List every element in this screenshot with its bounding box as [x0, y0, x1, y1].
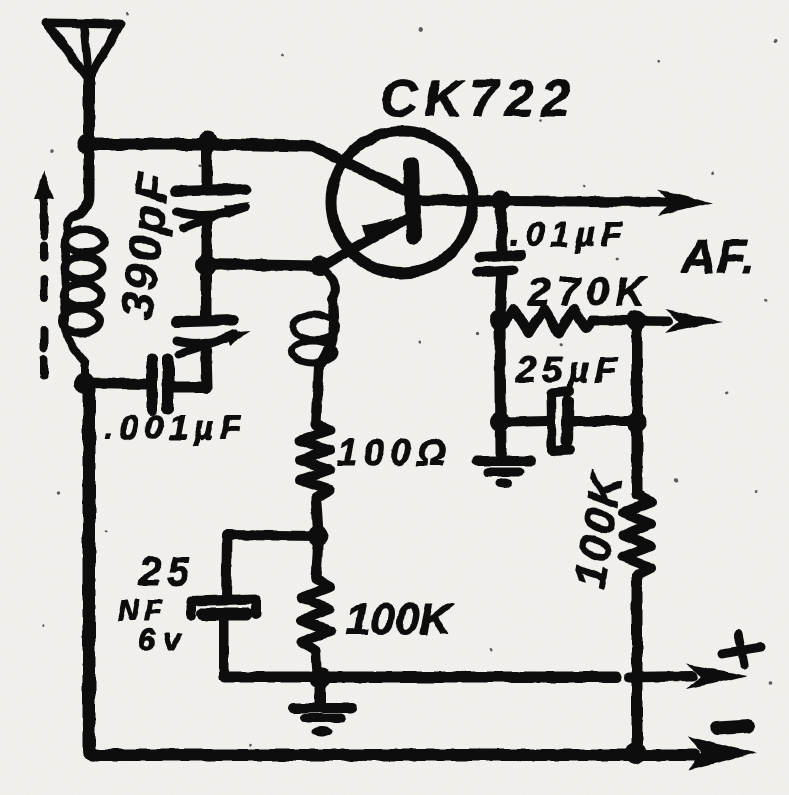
- node 25uF left junction: [490, 412, 510, 432]
- wire 270K to arrow: [592, 320, 668, 321]
- variable capacitor 390pF lower section: [176, 266, 251, 388]
- dashed arrow tuning indicator: [34, 170, 54, 376]
- wire right vertical lower: [632, 575, 643, 747]
- capacitor 25uF: [505, 391, 630, 451]
- svg-text:.01µF: .01µF: [510, 216, 628, 254]
- wire left long vertical: [89, 382, 96, 755]
- svg-text:AF.: AF.: [680, 231, 756, 284]
- wire junction to bypass cap: [226, 535, 318, 599]
- svg-text:100K: 100K: [346, 595, 454, 644]
- ground middle: [293, 689, 352, 736]
- resistor 100K emitter: [301, 546, 330, 668]
- svg-text:25µF: 25µF: [515, 349, 623, 390]
- svg-text:25: 25: [138, 550, 196, 594]
- wire minus rail: [94, 749, 695, 761]
- resistor 270K: [505, 309, 592, 333]
- wire 100ohm to junction: [316, 503, 318, 532]
- capacitor .01uF coupling: [477, 207, 521, 315]
- wire plus rail: [224, 672, 616, 683]
- node tank mid junction: [196, 255, 217, 276]
- wire left vertical to coil: [74, 143, 89, 216]
- node ground junction: [309, 667, 331, 689]
- node collector junction: [491, 190, 511, 210]
- resistor 100K bias: [623, 494, 651, 575]
- wire coil bottom to capacitor: [85, 383, 146, 384]
- variable capacitor 390pF upper section: [176, 145, 250, 262]
- capacitor 25MF 6v bypass: [191, 599, 256, 676]
- svg-text:270K: 270K: [527, 270, 652, 314]
- AF arrow: [658, 189, 712, 216]
- node 270K left junction: [490, 310, 511, 331]
- wire tank to emitter: [206, 264, 319, 266]
- coil L1 antenna tank: [62, 214, 104, 382]
- node antenna junction: [77, 134, 97, 154]
- node tank top junction: [198, 132, 219, 153]
- wire left bias vertical: [500, 320, 501, 453]
- AF lower arrow: [665, 309, 723, 333]
- node emitter junction: [310, 256, 330, 276]
- wire top horizontal: [89, 144, 312, 146]
- svg-text:.001µF: .001µF: [104, 409, 247, 447]
- node 25uF right junction: [627, 412, 647, 432]
- plus arrow: [686, 664, 748, 689]
- coil L2 tickler: [292, 267, 337, 425]
- node coil bottom junction: [75, 373, 96, 394]
- wire right vertical upper: [632, 321, 643, 494]
- resistor 100 ohm: [300, 424, 330, 503]
- svg-text:CK722: CK722: [380, 70, 577, 128]
- ground right: [477, 461, 531, 488]
- minus arrow: [688, 736, 756, 770]
- antenna: [46, 23, 120, 145]
- svg-text:6v: 6v: [138, 622, 188, 657]
- svg-text:100Ω: 100Ω: [337, 432, 452, 473]
- minus symbol: [717, 726, 749, 728]
- node emitter divider junction: [308, 526, 329, 547]
- capacitor .001uF: [152, 359, 207, 410]
- transistor Q1 CK722: [312, 131, 497, 273]
- plus symbol: [722, 634, 761, 665]
- node minus rail junction: [625, 742, 647, 764]
- node 270K right junction: [626, 311, 647, 332]
- wire collector to AF: [501, 201, 665, 202]
